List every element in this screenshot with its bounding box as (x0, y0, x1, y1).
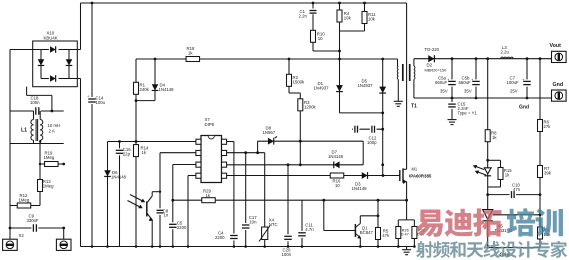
svg-text:BC847: BC847 (360, 230, 374, 235)
svg-text:39k: 39k (544, 171, 552, 176)
svg-text:10k: 10k (368, 17, 376, 22)
svg-text:M1: M1 (412, 167, 418, 172)
svg-text:100u: 100u (96, 100, 106, 105)
svg-text:0.47: 0.47 (401, 233, 408, 237)
svg-text:2200: 2200 (177, 225, 187, 230)
svg-text:660uF: 660uF (459, 80, 472, 85)
svg-text:1200k: 1200k (304, 105, 317, 110)
svg-text:L1: L1 (21, 128, 27, 134)
svg-text:DIP8: DIP8 (205, 122, 215, 127)
svg-text:35V: 35V (440, 89, 448, 94)
svg-text:330nF: 330nF (27, 218, 40, 223)
svg-text:NTC: NTC (269, 222, 278, 227)
svg-text:1k: 1k (142, 150, 147, 155)
svg-text:1k: 1k (505, 173, 510, 178)
svg-text:10: 10 (335, 183, 340, 188)
svg-text:22p: 22p (123, 152, 131, 157)
svg-text:10: 10 (318, 36, 323, 41)
svg-text:10 mH: 10 mH (48, 123, 61, 128)
svg-text:TO-220: TO-220 (425, 47, 440, 52)
svg-text:1N4148: 1N4148 (328, 154, 344, 159)
svg-text:47n: 47n (513, 187, 521, 192)
svg-text:+: + (522, 78, 524, 82)
svg-text:1n: 1n (164, 213, 169, 218)
svg-text:2 A: 2 A (49, 129, 55, 134)
svg-text:100n: 100n (30, 100, 40, 105)
svg-text:10n: 10n (249, 220, 257, 225)
svg-text:1N4148: 1N4148 (352, 186, 368, 191)
svg-text:1N4937: 1N4937 (314, 86, 330, 91)
svg-text:100p: 100p (367, 140, 377, 145)
svg-text:Gnd: Gnd (519, 105, 529, 111)
svg-text:1k: 1k (492, 135, 497, 140)
svg-text:X2: X2 (19, 233, 25, 238)
svg-text:1N967: 1N967 (263, 130, 276, 135)
svg-text:+: + (87, 95, 89, 99)
svg-text:1k: 1k (188, 51, 193, 56)
svg-text:2200: 2200 (215, 235, 225, 240)
svg-text:Vout: Vout (550, 43, 562, 49)
svg-text:1500k: 1500k (293, 80, 306, 85)
svg-text:1Meg: 1Meg (44, 155, 55, 160)
svg-text:T1: T1 (411, 104, 417, 110)
svg-text:240k: 240k (140, 87, 150, 92)
svg-text:1N4148: 1N4148 (159, 87, 175, 92)
svg-text:1Meg: 1Meg (43, 184, 54, 189)
svg-text:100n: 100n (282, 252, 292, 257)
svg-text:27k: 27k (544, 124, 552, 129)
svg-text:35V: 35V (464, 89, 472, 94)
svg-text:2.2u: 2.2u (501, 50, 510, 55)
svg-text:660uF: 660uF (435, 80, 448, 85)
svg-text:MBR20=150: MBR20=150 (425, 68, 448, 73)
svg-text:Type = Y1: Type = Y1 (458, 111, 478, 116)
svg-text:+: + (447, 78, 449, 82)
svg-text:100uF: 100uF (507, 80, 520, 85)
svg-text:1Meg: 1Meg (19, 198, 30, 203)
svg-text:10k: 10k (344, 16, 352, 21)
svg-text:1N4937: 1N4937 (358, 83, 374, 88)
svg-text:Gnd: Gnd (553, 82, 564, 88)
svg-text:25V: 25V (510, 89, 518, 94)
svg-text:KBU4K: KBU4K (44, 36, 58, 41)
svg-text:1N4148: 1N4148 (111, 175, 127, 180)
svg-text:+: + (471, 78, 473, 82)
svg-text:47k: 47k (382, 233, 390, 238)
svg-text:IPA60R385: IPA60R385 (409, 174, 432, 179)
svg-text:4.7n: 4.7n (305, 227, 314, 232)
svg-text:2.2n: 2.2n (299, 14, 308, 19)
